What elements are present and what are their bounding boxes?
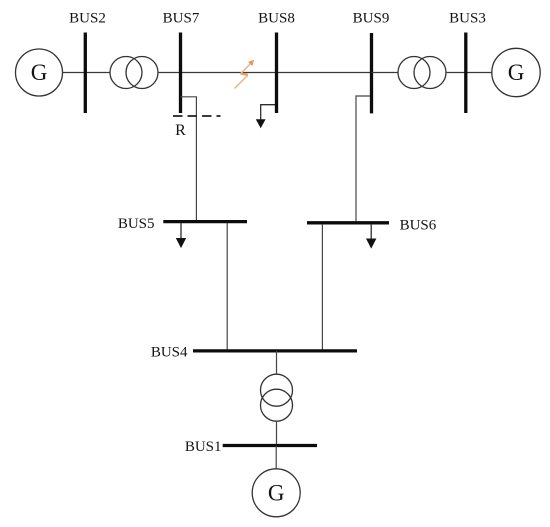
bus BUS8 <box>275 33 278 114</box>
svg-text:R: R <box>175 122 186 139</box>
svg-text:BUS1: BUS1 <box>185 439 222 455</box>
bus BUS6 <box>307 221 389 224</box>
transformer T3 <box>261 374 293 421</box>
svg-text:BUS4: BUS4 <box>151 345 188 361</box>
load arrow BUS5 <box>176 223 186 248</box>
transformer T2 <box>398 57 446 89</box>
generator G3 <box>252 469 300 517</box>
svg-text:G: G <box>508 60 525 85</box>
wire BUS7 to BUS9 <box>181 72 372 74</box>
wire BUS9 to T2 <box>372 72 399 74</box>
breaker R dashed line <box>173 115 221 117</box>
bus BUS4 <box>193 349 357 352</box>
wire T2 to G2 <box>446 72 492 74</box>
generator G2 <box>492 48 540 96</box>
transformer T1 <box>110 57 158 89</box>
svg-text:G: G <box>31 60 48 85</box>
generator G1 <box>16 49 63 96</box>
wire BUS6 to BUS4 <box>321 224 323 350</box>
wire BUS5 to BUS4 <box>226 223 228 350</box>
bus BUS3 <box>464 33 467 114</box>
bus BUS1 <box>223 444 317 447</box>
wire BUS9 branch to BUS6 <box>356 96 372 221</box>
wire BUS1 to G3 <box>275 446 277 470</box>
bus BUS5 <box>163 220 247 223</box>
load arrow BUS8 <box>256 105 277 129</box>
fault arrow (lightning) <box>235 60 255 89</box>
wire T1 to BUS7 <box>158 72 181 74</box>
svg-text:BUS9: BUS9 <box>353 11 390 27</box>
wire BUS4 to T3 <box>276 351 278 374</box>
svg-text:BUS8: BUS8 <box>258 11 295 27</box>
wire BUS7 branch to BUS5 <box>181 97 197 221</box>
svg-text:BUS2: BUS2 <box>69 11 106 27</box>
svg-text:BUS6: BUS6 <box>400 217 437 233</box>
load arrow BUS6 <box>366 224 376 249</box>
bus BUS2 <box>84 33 87 114</box>
wire T3 to BUS1 <box>276 421 278 445</box>
svg-text:BUS5: BUS5 <box>118 216 155 232</box>
svg-text:G: G <box>268 480 285 505</box>
svg-text:BUS3: BUS3 <box>449 11 486 27</box>
wire G1 to T1 <box>63 72 111 74</box>
bus BUS9 <box>370 33 373 113</box>
svg-text:BUS7: BUS7 <box>163 11 200 27</box>
bus BUS7 <box>179 33 182 114</box>
